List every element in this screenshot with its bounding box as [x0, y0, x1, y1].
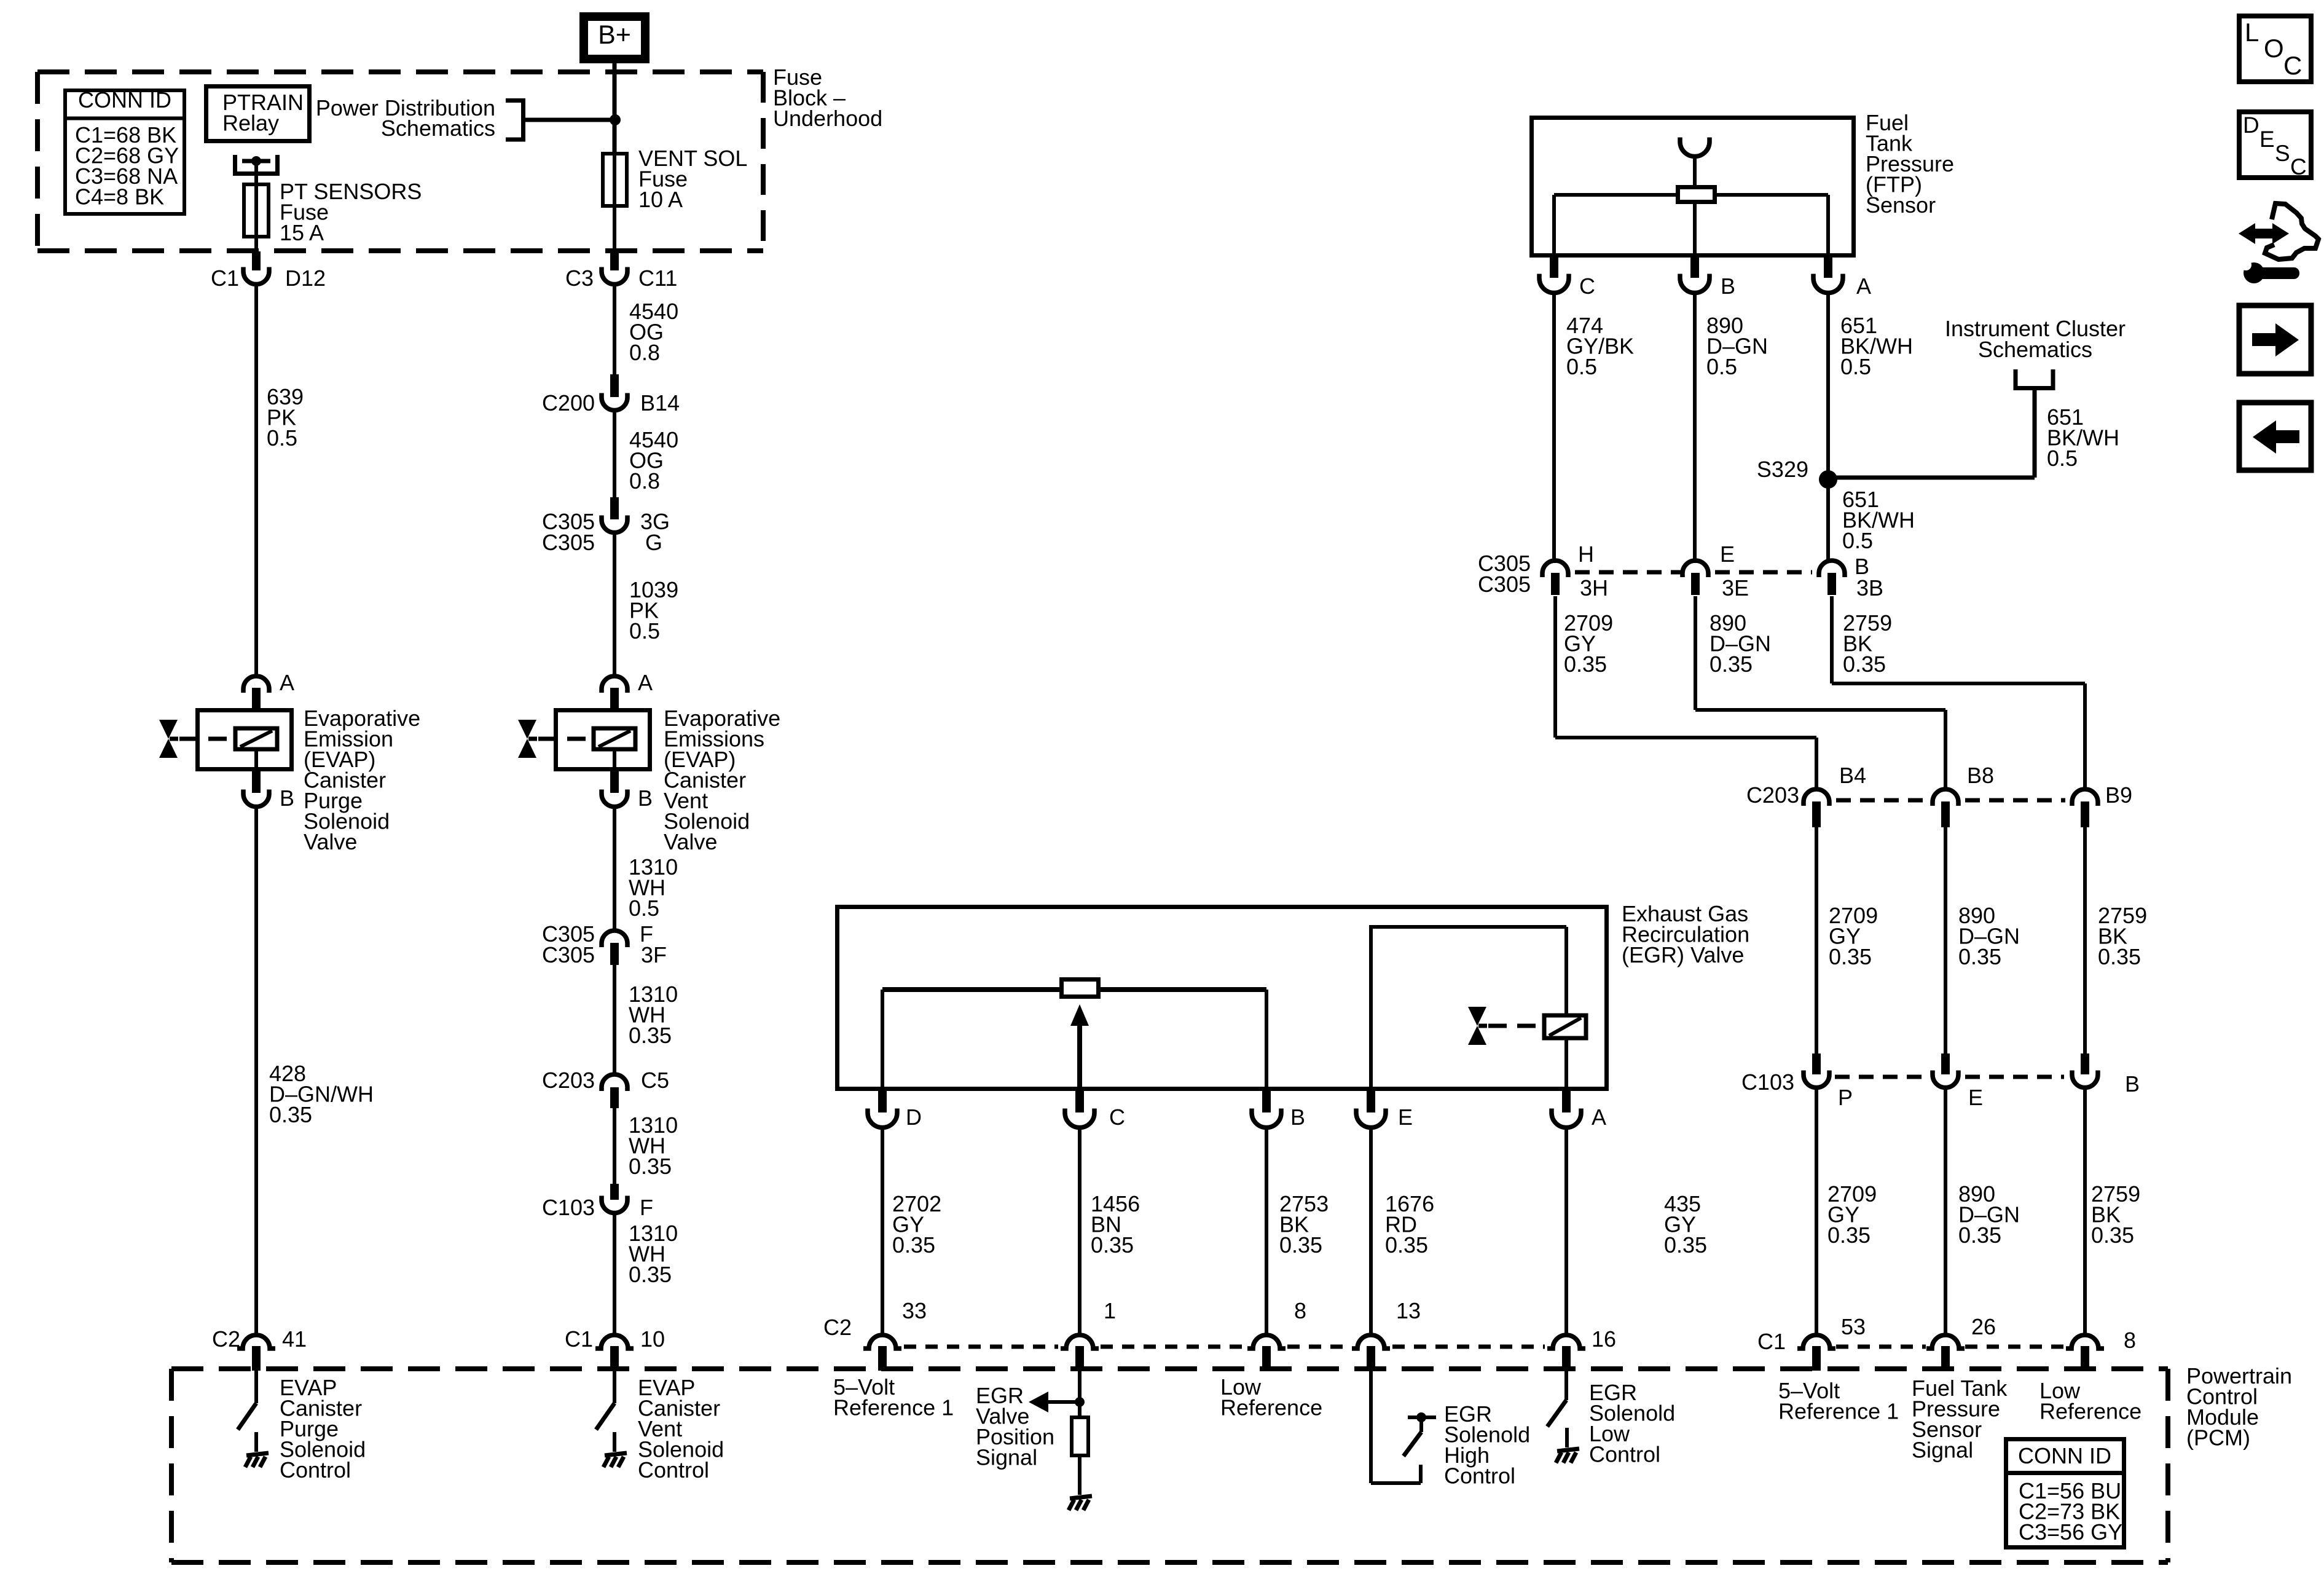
- wire fuse to connector C1 D12: [254, 237, 258, 253]
- svg-text:E: E: [2259, 127, 2275, 152]
- wire 1310 WH 0.35 upper: [613, 964, 616, 1074]
- svg-text:0.35: 0.35: [629, 1154, 672, 1179]
- svg-text:C: C: [2290, 154, 2307, 179]
- svg-text:C: C: [1109, 1105, 1125, 1130]
- PCM driver switch vent: [613, 1371, 616, 1403]
- ground vent driver: [613, 1432, 616, 1452]
- svg-text:Control: Control: [1444, 1463, 1515, 1489]
- svg-text:A: A: [1592, 1105, 1606, 1130]
- connector C203 row pin: [1804, 789, 1829, 806]
- EGR pin D connector: [878, 1091, 887, 1112]
- svg-text:C200: C200: [542, 390, 595, 415]
- PCM internal dotted bus left: [904, 1345, 1058, 1349]
- svg-text:F: F: [640, 1195, 653, 1220]
- DESC icon box: [2239, 112, 2311, 178]
- EGR position sensor element line: [882, 987, 1266, 992]
- connector C305 H 3H: [1542, 561, 1568, 577]
- svg-text:13: 13: [1396, 1298, 1421, 1323]
- wire 4540 OG lower: [613, 411, 616, 499]
- wire B+ to VENT SOL fuse: [613, 63, 617, 152]
- svg-text:0.5: 0.5: [1566, 354, 1597, 379]
- EGR solenoid inner frame: [1369, 927, 1373, 1089]
- wires C103 to PCM: [1815, 1089, 1818, 1335]
- svg-text:0.5: 0.5: [267, 425, 297, 451]
- wire 428 D-GN/WH: [254, 808, 258, 1335]
- connector C203 row pin: [1933, 789, 1958, 806]
- svg-text:C103: C103: [542, 1195, 595, 1220]
- C103 row dashed links: [1835, 1075, 1925, 1079]
- svg-text:Sensor: Sensor: [1866, 192, 1936, 218]
- FTP sensing element: [1678, 187, 1715, 202]
- svg-text:0.35: 0.35: [1843, 652, 1886, 677]
- svg-text:H: H: [1578, 541, 1594, 567]
- svg-text:0.35: 0.35: [1279, 1232, 1322, 1258]
- svg-text:0.8: 0.8: [629, 468, 660, 494]
- svg-text:Underhood: Underhood: [773, 106, 882, 131]
- connector C200 B14: [610, 374, 619, 397]
- svg-text:B: B: [280, 786, 294, 811]
- connector C2 pin 16 at PCM: [1547, 1335, 1585, 1349]
- wire EGR pin D to PCM: [881, 1127, 884, 1335]
- svg-text:0.35: 0.35: [1829, 944, 1872, 969]
- svg-text:0.5: 0.5: [629, 618, 660, 644]
- svg-text:26: 26: [1971, 1314, 1996, 1339]
- svg-text:(PCM): (PCM): [2186, 1425, 2250, 1451]
- FTP wire bowl to element: [1693, 156, 1697, 185]
- PCM EGR low driver switch: [1564, 1371, 1568, 1400]
- svg-text:0.35: 0.35: [1710, 652, 1753, 677]
- wire 1039 PK: [613, 534, 616, 676]
- connector C305 F 3F: [602, 931, 627, 947]
- svg-text:C: C: [1579, 274, 1595, 299]
- svg-text:G: G: [645, 530, 662, 555]
- arrow EGR valve position signal: [1045, 1400, 1080, 1404]
- EGR valve position signal wire: [1078, 1371, 1082, 1417]
- connector C1 D12: [243, 267, 269, 285]
- connector C305 B 3B: [1819, 561, 1845, 577]
- svg-text:0.35: 0.35: [629, 1023, 672, 1048]
- svg-text:Signal: Signal: [1912, 1438, 1973, 1463]
- wire 1310 WH 0.35 lower: [613, 1214, 616, 1335]
- svg-text:Valve: Valve: [664, 829, 717, 854]
- EGR pin B connector: [1262, 1091, 1271, 1112]
- svg-text:C11: C11: [638, 266, 677, 291]
- EGR pot wiper arrow: [1070, 1004, 1089, 1026]
- C1 row dotted links: [1836, 1345, 1926, 1349]
- ground EGR low driver: [1565, 1428, 1569, 1447]
- wire 651 BK/WH: [1826, 293, 1830, 563]
- svg-text:Control: Control: [280, 1457, 351, 1483]
- svg-text:1: 1: [1104, 1298, 1116, 1323]
- svg-text:C203: C203: [1746, 782, 1799, 808]
- svg-text:53: 53: [1841, 1314, 1866, 1339]
- svg-text:41: 41: [282, 1326, 307, 1352]
- wire 474 GY/BK: [1552, 293, 1556, 563]
- svg-text:C103: C103: [1741, 1069, 1794, 1095]
- svg-text:B14: B14: [640, 390, 680, 415]
- svg-text:C1: C1: [211, 266, 239, 291]
- svg-text:0.5: 0.5: [1840, 354, 1871, 379]
- connector C1 10 at PCM: [595, 1335, 634, 1349]
- connector C103 row pin: [1941, 1053, 1950, 1074]
- connector C2 pin 33 at PCM: [863, 1335, 901, 1349]
- connector C103 row pin: [2081, 1053, 2089, 1074]
- FTP pin A connector: [1824, 255, 1832, 278]
- connector C103 F: [610, 1184, 619, 1200]
- FTP element legs: [1552, 195, 1556, 255]
- EVAP purge valve box: [198, 711, 292, 770]
- EGR valve outline box: [838, 907, 1607, 1089]
- svg-text:C1: C1: [1757, 1329, 1786, 1354]
- svg-text:C5: C5: [641, 1068, 669, 1093]
- svg-text:C3: C3: [565, 266, 594, 291]
- fuse PT SENSORS 15A: [244, 184, 269, 237]
- connector A vent valve: [602, 676, 627, 693]
- CONN ID table PCM: [2006, 1439, 2124, 1548]
- wire relay to PT SENSORS fuse: [254, 161, 258, 185]
- double arrow of wrench icon: [2253, 229, 2274, 238]
- wire EGR pin C to PCM: [1078, 1127, 1082, 1335]
- svg-text:P: P: [1838, 1085, 1853, 1110]
- junction dot relay output: [251, 156, 261, 166]
- connector C203 row pin: [2072, 789, 2098, 806]
- fuse VENT SOL 10A: [603, 154, 627, 206]
- EGR pin C connector: [1075, 1091, 1084, 1112]
- svg-text:Control: Control: [638, 1457, 709, 1483]
- wire 4540 OG upper: [613, 285, 616, 376]
- EGR pin E connector: [1367, 1091, 1375, 1112]
- svg-text:(EGR) Valve: (EGR) Valve: [1622, 942, 1744, 967]
- forward arrow icon box: [2239, 305, 2311, 374]
- svg-text:0.35: 0.35: [1664, 1232, 1707, 1258]
- connector B vent valve: [610, 770, 619, 793]
- svg-text:C305: C305: [542, 530, 595, 555]
- svg-text:C203: C203: [542, 1068, 595, 1093]
- svg-text:B: B: [638, 786, 653, 811]
- FTP pin C connector: [1550, 255, 1558, 278]
- svg-text:C305: C305: [542, 942, 595, 967]
- wire EGR pin A to PCM: [1564, 1127, 1568, 1335]
- svg-text:0.35: 0.35: [1564, 652, 1607, 677]
- connector C2 pin 8 at PCM: [1247, 1335, 1286, 1349]
- fuse block dashed border bottom: [37, 248, 763, 253]
- svg-text:Signal: Signal: [976, 1445, 1037, 1470]
- wire fuse to connector C3 C11: [613, 206, 616, 253]
- wire B to B9: [1830, 596, 1834, 683]
- svg-text:Control: Control: [1589, 1442, 1660, 1467]
- wire 639 PK: [254, 285, 258, 676]
- EGR solenoid coil: [1544, 1015, 1586, 1038]
- PTRAIN Relay box: [206, 87, 310, 141]
- PCM EGR high driver wire: [1369, 1371, 1373, 1483]
- svg-text:S329: S329: [1757, 457, 1808, 482]
- svg-text:0.35: 0.35: [2091, 1223, 2134, 1248]
- svg-text:3H: 3H: [1580, 575, 1608, 600]
- wrench of icon: [2244, 262, 2264, 283]
- wire EGR pin B to PCM: [1265, 1127, 1268, 1335]
- wire to power distribution bracket: [525, 118, 615, 122]
- wires C203 to C103: [1815, 827, 1818, 1053]
- svg-text:3E: 3E: [1722, 575, 1749, 600]
- svg-text:B: B: [1290, 1105, 1305, 1130]
- wire EGR pin E to PCM: [1369, 1127, 1373, 1335]
- svg-text:0.35: 0.35: [1958, 944, 2001, 969]
- svg-text:D12: D12: [285, 266, 326, 291]
- svg-text:3F: 3F: [641, 942, 667, 967]
- svg-text:E: E: [1968, 1085, 1983, 1110]
- svg-text:B9: B9: [2105, 782, 2132, 808]
- svg-text:CONN ID: CONN ID: [2018, 1443, 2111, 1468]
- svg-text:0.5: 0.5: [1842, 528, 1873, 553]
- svg-text:B4: B4: [1839, 763, 1866, 788]
- svg-text:0.5: 0.5: [2047, 446, 2078, 471]
- svg-text:0.5: 0.5: [1706, 354, 1737, 379]
- wire S329 to instrument cluster: [1828, 476, 2035, 480]
- connector C1 row pin at PCM: [1926, 1335, 1965, 1349]
- PCM dashed border right: [2165, 1369, 2170, 1562]
- ground purge driver: [254, 1432, 258, 1452]
- instrument cluster bracket: [2016, 369, 2053, 388]
- FTP pin B connector: [1690, 255, 1699, 278]
- power distribution bracket: [506, 101, 524, 140]
- svg-text:16: 16: [1592, 1326, 1616, 1352]
- junction dot power distribution tap: [610, 114, 621, 125]
- EGR pot left leg: [881, 990, 884, 1089]
- svg-text:A: A: [1856, 274, 1871, 299]
- junction dot position signal: [1075, 1397, 1085, 1407]
- C203 row dashed links: [1836, 798, 1926, 803]
- wire E to B8: [1694, 596, 1697, 710]
- connector C2 41 at PCM: [237, 1335, 275, 1349]
- fuse block dashed border left: [35, 72, 40, 251]
- connector C2 pin 1 at PCM: [1061, 1335, 1099, 1349]
- svg-text:E: E: [1720, 541, 1735, 567]
- svg-text:0.5: 0.5: [629, 896, 659, 921]
- svg-text:Reference 1: Reference 1: [1778, 1399, 1899, 1424]
- EGR high driver switch contact: [1408, 1416, 1436, 1419]
- LOC icon box: [2239, 16, 2311, 82]
- svg-text:C2: C2: [212, 1326, 240, 1352]
- svg-text:E: E: [1398, 1105, 1413, 1130]
- PCM dashed border bottom: [171, 1560, 2168, 1565]
- dashed link pintle to coil: [179, 737, 234, 741]
- connector C1 row pin at PCM: [2066, 1335, 2104, 1349]
- B+ battery positive box: [584, 17, 645, 59]
- back arrow icon box: [2239, 403, 2311, 470]
- svg-text:C: C: [2283, 51, 2302, 80]
- svg-text:0.35: 0.35: [1958, 1223, 2001, 1248]
- EGR position sensor resistor: [1062, 980, 1099, 997]
- svg-text:Reference: Reference: [2039, 1399, 2141, 1424]
- fuse block dashed border top: [37, 69, 763, 74]
- svg-text:0.8: 0.8: [629, 340, 660, 365]
- connector C203 C5: [602, 1074, 627, 1091]
- connector C103 row pin: [1812, 1053, 1821, 1074]
- svg-text:8: 8: [1294, 1298, 1306, 1323]
- svg-text:B8: B8: [1967, 763, 1994, 788]
- svg-text:0.35: 0.35: [1385, 1232, 1428, 1258]
- svg-text:B+: B+: [598, 20, 631, 50]
- svg-text:33: 33: [902, 1298, 927, 1323]
- svg-text:0.35: 0.35: [629, 1262, 672, 1287]
- PCM driver switch purge: [254, 1371, 258, 1403]
- dashed link EGR pintle to coil: [1488, 1024, 1543, 1028]
- svg-text:C2: C2: [823, 1315, 852, 1340]
- svg-text:3B: 3B: [1856, 575, 1883, 600]
- svg-text:10: 10: [640, 1326, 665, 1352]
- svg-text:D: D: [2243, 112, 2259, 138]
- svg-text:CONN ID: CONN ID: [78, 87, 171, 112]
- svg-text:C3=56 GY: C3=56 GY: [2019, 1519, 2122, 1545]
- connector B purge valve: [252, 770, 261, 793]
- wire 1310 WH 0.5: [613, 808, 616, 930]
- svg-text:S: S: [2275, 141, 2290, 166]
- C305 row dashed links: [1575, 570, 1681, 575]
- EVAP vent valve box: [556, 711, 650, 770]
- wire H to B4: [1553, 596, 1557, 738]
- Fuel Tank Pressure FTP sensor box: [1532, 118, 1854, 256]
- splice S329: [1819, 470, 1837, 489]
- svg-text:Valve: Valve: [304, 829, 357, 854]
- ground EGR position signal: [1078, 1475, 1082, 1495]
- wire 1310 WH 0.35 middle: [613, 1107, 616, 1185]
- PCM dashed border top: [171, 1366, 2168, 1371]
- FTP internal connector bowl: [1680, 138, 1710, 157]
- svg-text:B: B: [2125, 1071, 2140, 1097]
- wire resistor to ground: [1078, 1455, 1082, 1492]
- dashed link pintle to coil vent: [538, 737, 592, 741]
- svg-text:D: D: [906, 1105, 922, 1130]
- CONN ID table fuse block: [65, 90, 184, 214]
- svg-text:O: O: [2264, 34, 2284, 63]
- connector C305 3G G: [610, 497, 619, 519]
- svg-text:C4=8 BK: C4=8 BK: [75, 184, 164, 210]
- svg-text:10 A: 10 A: [638, 187, 683, 212]
- PTRAIN relay output bracket: [233, 155, 237, 171]
- vehicle wrench icon: [2265, 203, 2318, 259]
- connector C1 row pin at PCM: [1797, 1335, 1835, 1349]
- svg-text:C1: C1: [565, 1326, 593, 1352]
- svg-text:0.35: 0.35: [892, 1232, 935, 1258]
- EGR pintle valve symbol: [1468, 1007, 1486, 1026]
- PCM dashed border left: [169, 1369, 174, 1562]
- svg-text:Schematics: Schematics: [381, 116, 495, 141]
- fuse block dashed border right: [761, 72, 766, 251]
- svg-text:0.35: 0.35: [2098, 944, 2141, 969]
- vent valve pintle valve symbol: [518, 720, 536, 739]
- connector A purge valve: [243, 676, 269, 693]
- svg-text:C305: C305: [1478, 572, 1531, 597]
- EGR pot right leg: [1265, 990, 1268, 1089]
- svg-text:Schematics: Schematics: [1978, 337, 2092, 362]
- svg-text:Reference 1: Reference 1: [833, 1395, 954, 1420]
- vent valve solenoid coil: [594, 728, 635, 749]
- svg-text:0.35: 0.35: [269, 1102, 312, 1127]
- purge valve pintle valve symbol: [159, 720, 178, 739]
- PCM internal resistor: [1072, 1417, 1088, 1455]
- EGR pin A connector: [1562, 1091, 1571, 1112]
- svg-text:Reference: Reference: [1220, 1395, 1322, 1420]
- svg-text:8: 8: [2124, 1328, 2136, 1353]
- wire 890 D-GN: [1693, 293, 1697, 563]
- svg-text:15 A: 15 A: [280, 220, 324, 245]
- connector C305 E 3E: [1682, 561, 1708, 577]
- svg-text:0.35: 0.35: [1827, 1223, 1871, 1248]
- svg-text:0.35: 0.35: [1091, 1232, 1134, 1258]
- connector C3 C11: [602, 267, 627, 285]
- svg-text:L: L: [2245, 18, 2259, 47]
- svg-text:B: B: [1721, 274, 1735, 299]
- svg-text:A: A: [638, 670, 653, 695]
- svg-text:A: A: [280, 670, 294, 695]
- svg-text:Relay: Relay: [222, 111, 279, 136]
- purge valve solenoid coil: [235, 728, 277, 749]
- connector C2 pin 13 at PCM: [1352, 1335, 1390, 1349]
